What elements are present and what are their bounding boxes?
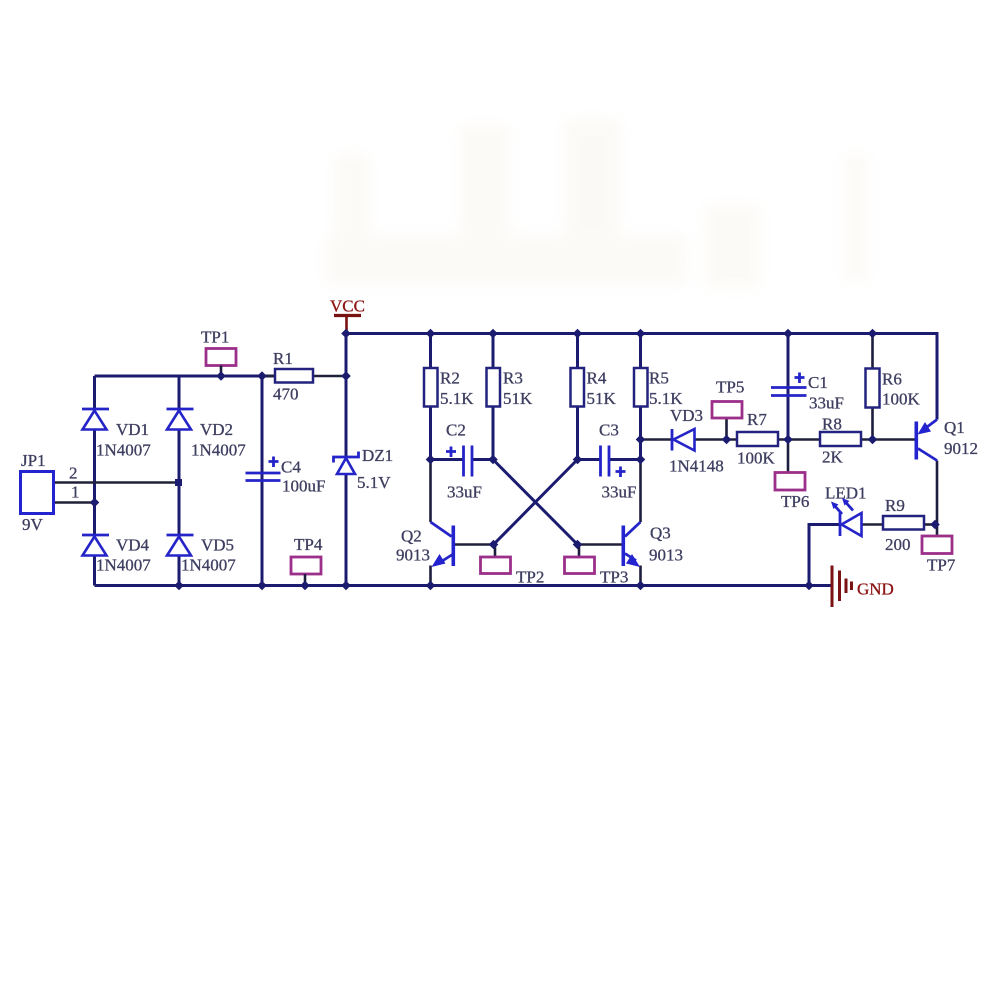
wire C1 column	[787, 334, 790, 440]
svg-text:R6: R6	[882, 370, 902, 389]
svg-text:VD5: VD5	[201, 536, 234, 555]
svg-text:VCC: VCC	[330, 297, 365, 316]
test point TP2	[481, 557, 545, 587]
svg-text:TP7: TP7	[927, 556, 956, 575]
wire R4 column	[576, 334, 579, 460]
wire JP1 pin1	[54, 501, 95, 504]
wire Q2 base	[455, 543, 494, 546]
svg-text:1N4148: 1N4148	[669, 457, 724, 476]
capacitor C2	[446, 421, 482, 502]
node base row junctions	[489, 540, 583, 550]
wire VCC top rail	[346, 334, 937, 420]
svg-text:9V: 9V	[22, 515, 44, 534]
svg-text:33uF: 33uF	[602, 483, 637, 502]
wire bridge right column	[178, 376, 181, 586]
wire C2 left	[431, 458, 464, 461]
svg-text:Q1: Q1	[944, 418, 965, 437]
svg-text:100K: 100K	[882, 390, 921, 409]
svg-text:9013: 9013	[396, 546, 430, 565]
svg-text:C2: C2	[446, 421, 466, 440]
resistor R7	[737, 410, 778, 468]
diode VD4	[82, 535, 151, 575]
capacitor C4	[246, 457, 326, 496]
wire TP2 stem	[494, 545, 497, 558]
capacitor C3	[599, 421, 636, 502]
wire LED to R9	[862, 523, 884, 526]
svg-text:JP1: JP1	[21, 451, 46, 470]
resistor R6	[866, 369, 921, 409]
svg-text:VD2: VD2	[200, 420, 233, 439]
svg-text:R9: R9	[885, 496, 905, 515]
svg-text:VD4: VD4	[116, 536, 150, 555]
svg-text:2K: 2K	[822, 448, 844, 467]
resistor R1	[262, 349, 313, 404]
LED LED1	[825, 484, 867, 537]
wire Q3 collector lead	[639, 460, 642, 523]
svg-text:1N4007: 1N4007	[181, 556, 236, 575]
test point TP1	[201, 328, 236, 377]
test point TP5	[712, 378, 744, 419]
resistor R8	[820, 415, 861, 467]
svg-text:R4: R4	[587, 369, 607, 388]
svg-text:C1: C1	[808, 373, 828, 392]
wire cross coupling B	[494, 460, 578, 545]
wire C3 left	[578, 458, 601, 461]
svg-text:2: 2	[69, 464, 78, 483]
svg-text:470: 470	[273, 385, 299, 404]
test point TP4	[291, 535, 323, 586]
resistor R3	[487, 368, 534, 408]
svg-text:C4: C4	[281, 458, 301, 477]
svg-text:1N4007: 1N4007	[96, 441, 151, 460]
node VD3 row junctions	[636, 435, 878, 445]
svg-text:R2: R2	[440, 369, 460, 388]
wire VD3 left lead	[641, 438, 673, 441]
wire R8 to Q1 base	[861, 438, 915, 441]
svg-text:200: 200	[885, 535, 911, 554]
transistor Q1	[915, 418, 979, 461]
svg-text:1: 1	[71, 483, 80, 502]
wire R9 right lead	[924, 523, 937, 526]
svg-text:GND: GND	[857, 580, 894, 599]
svg-text:TP2: TP2	[516, 568, 544, 587]
wire Q1 collector column	[936, 461, 939, 537]
node JP1 pin1 junction	[90, 498, 100, 508]
test point TP6	[775, 473, 809, 512]
diode VD2	[167, 409, 247, 460]
svg-text:VD1: VD1	[116, 420, 149, 439]
zener diode DZ1	[334, 446, 394, 492]
wire Q2 collector lead	[429, 460, 432, 523]
wire R2 column	[429, 334, 432, 460]
svg-text:9013: 9013	[649, 546, 683, 565]
svg-text:TP6: TP6	[781, 492, 809, 511]
resistor R4	[571, 368, 617, 408]
resistor R5	[634, 368, 683, 408]
svg-text:1N4007: 1N4007	[96, 556, 151, 575]
wire bridge left column	[93, 376, 96, 586]
svg-text:33uF: 33uF	[447, 483, 482, 502]
wire Q3 base	[578, 543, 622, 546]
svg-text:51K: 51K	[503, 389, 533, 408]
wire TP5 stem	[725, 418, 728, 440]
wire R5 column	[639, 334, 642, 460]
svg-text:C3: C3	[599, 421, 619, 440]
wire Q3 emitter lead	[639, 566, 642, 586]
wire TP3 stem	[578, 545, 581, 558]
svg-text:R5: R5	[649, 369, 669, 388]
wire VD3 to R7	[694, 438, 737, 441]
test point TP3	[565, 557, 629, 587]
svg-text:51K: 51K	[587, 389, 617, 408]
svg-text:100K: 100K	[737, 449, 776, 468]
capacitor C1	[771, 373, 844, 413]
wire Q2 emitter lead	[429, 566, 432, 586]
wire LED riser	[809, 525, 840, 586]
svg-text:R3: R3	[503, 369, 523, 388]
node R9 right junction	[930, 520, 940, 530]
wire R1 right lead	[313, 375, 346, 378]
svg-text:LED1: LED1	[825, 484, 867, 503]
svg-text:Q2: Q2	[401, 527, 422, 546]
wire bottom rail	[95, 584, 833, 587]
svg-text:1N4007: 1N4007	[191, 441, 246, 460]
wire C2 right	[473, 458, 494, 461]
wire cross coupling A	[493, 460, 578, 545]
svg-text:R1: R1	[273, 349, 293, 368]
node VCC rail junctions	[341, 329, 877, 339]
svg-text:5.1V: 5.1V	[357, 473, 391, 492]
svg-text:9012: 9012	[944, 439, 978, 458]
test point TP7	[922, 536, 956, 575]
svg-text:TP3: TP3	[600, 568, 628, 587]
ground GND	[832, 566, 894, 608]
wire left section top	[95, 375, 276, 378]
svg-text:Q3: Q3	[650, 524, 671, 543]
resistor R9	[883, 496, 924, 554]
svg-text:TP4: TP4	[294, 535, 323, 554]
wire R3 column	[492, 334, 495, 460]
node bottom rail junctions	[174, 581, 814, 591]
wire VCC-DZ1 column	[345, 334, 348, 586]
svg-text:5.1K: 5.1K	[440, 389, 474, 408]
diode VD5	[167, 535, 237, 575]
node C2 row junctions	[426, 455, 646, 465]
wire JP1 pin2	[54, 481, 179, 484]
wire C4 column	[261, 376, 264, 586]
svg-text:100uF: 100uF	[282, 477, 325, 496]
wire TP6 stem	[787, 440, 790, 473]
transistor Q3	[622, 522, 684, 567]
wire C3 right	[610, 458, 641, 461]
transistor Q2	[396, 522, 455, 567]
svg-text:VD3: VD3	[670, 406, 703, 425]
svg-text:R8: R8	[822, 415, 842, 434]
svg-text:R7: R7	[747, 410, 767, 429]
svg-text:33uF: 33uF	[809, 394, 844, 413]
node JP1 pin2 junction	[175, 479, 182, 486]
power VCC	[330, 297, 365, 334]
resistor R2	[424, 368, 474, 408]
connector JP1	[21, 451, 80, 534]
node top-left wire junctions	[216, 371, 351, 381]
diode VD3	[669, 406, 724, 476]
wire R7 to R8	[778, 438, 820, 441]
svg-text:TP1: TP1	[201, 328, 229, 347]
svg-text:TP5: TP5	[716, 378, 744, 397]
wire R6 column	[871, 334, 874, 440]
svg-text:DZ1: DZ1	[362, 446, 393, 465]
diode VD1	[82, 409, 151, 460]
